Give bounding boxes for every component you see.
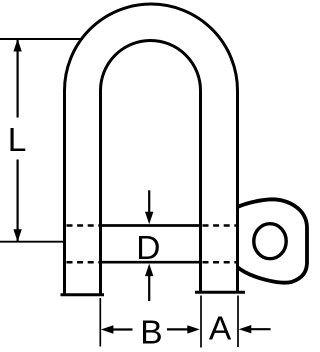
B left arrow line [112,328,133,330]
L top extension line [0,38,83,40]
L top arrowhead [13,39,21,52]
A right extension line [237,296,239,348]
pin bottom edge hidden dashes right leg [203,261,237,264]
B right extension line [200,296,202,348]
shackle inner outline [101,41,201,295]
D bottom arrowhead [145,264,153,277]
shackle outer outline [65,4,238,294]
pin bottom edge hidden dashes left leg [67,261,100,264]
svg-text:B: B [140,315,162,352]
pin head outline [238,199,308,282]
pin top edge solid (between legs) [99,224,202,227]
L bottom arrowhead [13,229,21,242]
B right arrow line [167,328,188,330]
D top arrowhead [145,212,153,225]
D top arrow line [148,190,150,215]
L bottom extension line [0,241,63,243]
pin top edge hidden dashes left leg [67,224,100,227]
B right arrowhead [187,325,200,333]
right leg bottom line [195,291,245,294]
left leg bottom line [61,293,105,296]
A right arrowhead [239,325,252,333]
D bottom arrow line [148,275,150,301]
B left extension line [99,298,101,347]
svg-text:A: A [209,310,232,347]
pin head eye circle [254,224,286,259]
pin top edge hidden dashes right leg [203,224,237,227]
B left arrowhead [101,325,114,333]
pin bottom edge solid (between legs) [99,261,202,264]
L dimension line upper segment [17,39,19,118]
A right arrow line [250,328,271,330]
svg-text:L: L [8,122,27,159]
svg-text:D: D [136,230,160,267]
L dimension line lower segment [17,160,19,242]
